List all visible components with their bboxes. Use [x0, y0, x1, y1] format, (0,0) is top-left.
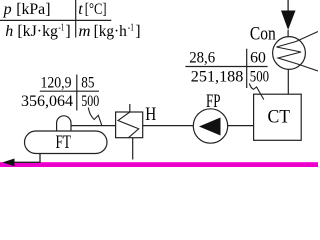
H shell box — [116, 112, 143, 138]
svg-text:FP: FP — [206, 91, 221, 112]
inlet arrowhead down — [281, 11, 296, 31]
condenser circle — [273, 37, 306, 70]
svg-text:[kg·h: [kg·h — [94, 23, 127, 40]
label B leader squiggle to CT — [249, 84, 263, 100]
svg-text:[kPa]: [kPa] — [16, 1, 50, 18]
svg-text:500: 500 — [81, 93, 99, 110]
label A leader squiggle to pipe — [88, 108, 102, 126]
CT shell box — [254, 94, 302, 140]
svg-text:t: t — [78, 1, 83, 18]
label B vertical divider — [246, 49, 248, 88]
svg-text:m: m — [79, 23, 91, 40]
label B fraction line — [185, 66, 267, 68]
legend vertical divider — [75, 0, 77, 38]
tank dome stub — [57, 116, 71, 132]
feed pump FP — [193, 91, 227, 143]
legend horizontal divider — [0, 19, 111, 21]
condenser cooling coil — [277, 32, 319, 72]
vapour inlet arrow at top — [281, 0, 296, 37]
H coil zigzag — [118, 112, 139, 138]
svg-text:60: 60 — [250, 50, 266, 67]
svg-text:[kJ·kg: [kJ·kg — [17, 23, 58, 40]
legend t [°C] — [78, 1, 106, 18]
drain line from tank — [3, 154, 41, 167]
tank vessel capsule — [25, 131, 108, 154]
legend units table — [0, 0, 141, 40]
pipe FP to CT — [228, 125, 254, 127]
pump casing circle — [193, 109, 227, 143]
magenta baseline — [0, 162, 318, 167]
svg-text:500: 500 — [250, 68, 269, 85]
legend h [kJ·kg-1] — [5, 23, 71, 41]
condenser Con — [250, 24, 318, 71]
svg-text:[°C]: [°C] — [85, 1, 107, 18]
wire vapour inlet from top — [287, 0, 289, 11]
svg-text:Con: Con — [250, 24, 276, 45]
svg-text:-1: -1 — [128, 23, 134, 34]
svg-text:-1: -1 — [58, 23, 64, 34]
svg-text:356,064: 356,064 — [21, 93, 73, 110]
H steam inlet stub — [129, 104, 131, 112]
pipe CT up to condenser — [287, 69, 289, 94]
state label B (before CT): 28,6|60 over 251,188|500 — [185, 49, 269, 100]
pipe H to pump FP — [143, 125, 194, 127]
feed tank FT — [25, 116, 108, 154]
svg-text:85: 85 — [81, 75, 94, 92]
svg-text:h: h — [5, 23, 13, 40]
svg-text:H: H — [145, 104, 156, 125]
column/tank CT box — [254, 94, 302, 140]
pump triangle — [199, 118, 221, 136]
svg-text:FT: FT — [56, 132, 72, 153]
svg-text:120,9: 120,9 — [41, 75, 72, 92]
legend p [kPa] — [3, 1, 51, 18]
legend m [kg·h-1] — [79, 23, 141, 41]
svg-text:28,6: 28,6 — [189, 50, 215, 67]
pipe tank to heater H — [71, 125, 116, 127]
H condensate outlet stub — [132, 138, 134, 160]
heater H box — [116, 104, 157, 160]
svg-text:p: p — [3, 1, 12, 18]
label A fraction line — [40, 90, 99, 92]
svg-text:CT: CT — [268, 107, 291, 128]
state label A (before H): 120,9|85 over 356,064|500 — [21, 75, 102, 126]
svg-text:251,188: 251,188 — [191, 68, 244, 85]
svg-text:]: ] — [65, 23, 70, 40]
wire arrowhead to condenser — [287, 30, 289, 37]
svg-text:]: ] — [135, 23, 140, 40]
label A vertical divider — [76, 75, 78, 111]
drain arrowhead left — [3, 159, 15, 167]
wire tank down — [13, 154, 40, 163]
